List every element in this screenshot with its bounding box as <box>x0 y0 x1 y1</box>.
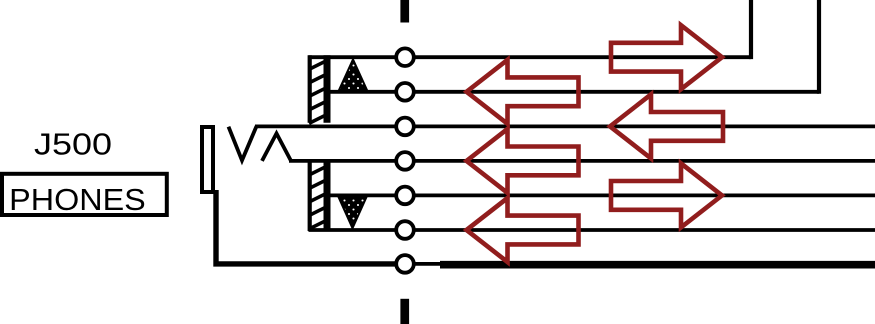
pin 1 <box>396 48 414 66</box>
down triangle marker <box>339 197 367 228</box>
signal flow arrow right, row 5 <box>611 163 722 227</box>
wire row 7 stub <box>414 262 442 266</box>
ground bus thick wire row 7 <box>440 261 875 269</box>
pin 6 <box>396 221 414 239</box>
pin 5 <box>396 187 414 205</box>
label box PHONES <box>2 174 167 217</box>
signal flow arrow left, row 4 <box>467 129 579 193</box>
wire row 4 <box>289 159 875 163</box>
sheet boundary dashed line, bottom dash <box>400 299 409 324</box>
wire row 2 <box>325 90 819 94</box>
wire row 3 <box>255 125 875 129</box>
jack tip spring contact (V) <box>229 126 257 160</box>
up triangle marker <box>339 59 367 90</box>
jack body hatched bar, lower segment <box>309 161 328 231</box>
signal flow arrow left, row 6 <box>467 198 579 262</box>
signal flow arrow right, row 1 <box>611 25 722 89</box>
sheet boundary dashed line, top dash <box>400 0 409 23</box>
pin 2 <box>396 83 414 101</box>
connector J500 plug sleeve <box>202 127 213 192</box>
pin 7 <box>396 255 414 273</box>
svg-text:PHONES: PHONES <box>9 182 146 217</box>
svg-text:J500: J500 <box>34 126 112 161</box>
wire row 1 <box>309 55 752 59</box>
jack switch contact (caret) <box>262 133 291 161</box>
signal flow arrow left, row 2 <box>467 60 579 124</box>
jack body hatched bar, upper segment <box>309 55 328 123</box>
wire plug sleeve to pin 7 <box>216 190 396 264</box>
pin 4 <box>396 152 414 170</box>
wire row 6 <box>309 228 875 232</box>
wire row 2 riser <box>817 0 821 94</box>
wire row 1 riser <box>749 0 753 59</box>
signal flow arrow left, row 3 <box>610 94 723 158</box>
pin 3 <box>396 118 414 136</box>
wire row 5 <box>325 193 875 197</box>
